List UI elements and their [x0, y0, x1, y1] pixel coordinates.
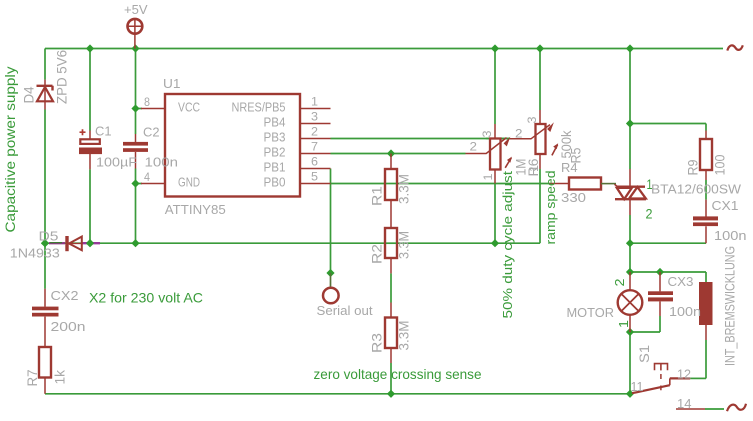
svg-text:ramp speed: ramp speed: [543, 171, 558, 245]
svg-text:C1: C1: [95, 124, 112, 139]
svg-text:3.3M: 3.3M: [397, 174, 412, 204]
svg-text:R7: R7: [25, 370, 40, 387]
svg-text:1N4933: 1N4933: [10, 246, 60, 261]
svg-text:X2 for 230 volt AC: X2 for 230 volt AC: [89, 290, 203, 306]
svg-text:U1: U1: [163, 76, 181, 91]
svg-text:ATTINY85: ATTINY85: [165, 202, 226, 217]
svg-text:MOTOR: MOTOR: [567, 305, 615, 320]
svg-text:100n: 100n: [145, 155, 179, 170]
svg-text:2: 2: [646, 206, 653, 222]
svg-text:2: 2: [515, 127, 523, 141]
svg-text:C2: C2: [143, 125, 160, 140]
svg-text:Capacitive power supply: Capacitive power supply: [3, 66, 18, 232]
svg-text:PB3: PB3: [264, 130, 286, 145]
svg-text:R2: R2: [370, 244, 385, 264]
svg-text:PB0: PB0: [264, 175, 286, 190]
svg-text:14: 14: [677, 396, 692, 411]
svg-text:3.3M: 3.3M: [397, 231, 412, 259]
svg-text:CX1: CX1: [712, 198, 739, 213]
svg-text:200n: 200n: [51, 319, 86, 334]
svg-text:330: 330: [561, 190, 586, 205]
svg-text:Serial out: Serial out: [317, 303, 373, 318]
svg-text:7: 7: [311, 140, 318, 154]
svg-text:1: 1: [527, 165, 541, 172]
svg-text:NRES/PB5: NRES/PB5: [232, 100, 286, 115]
svg-text:1: 1: [616, 320, 631, 328]
svg-text:R3: R3: [370, 333, 385, 353]
svg-text:100: 100: [713, 155, 728, 176]
svg-text:5: 5: [311, 170, 318, 184]
svg-text:R1: R1: [370, 186, 385, 206]
svg-text:50% duty cycle adjust: 50% duty cycle adjust: [500, 171, 515, 319]
svg-text:2: 2: [612, 279, 627, 287]
svg-text:2: 2: [311, 125, 318, 139]
svg-text:1: 1: [311, 95, 318, 109]
svg-text:3: 3: [311, 110, 318, 124]
svg-text:CX2: CX2: [51, 288, 79, 303]
svg-text:PB2: PB2: [264, 145, 286, 160]
svg-text:3: 3: [480, 130, 494, 137]
svg-text:100n: 100n: [714, 228, 747, 243]
svg-text:D4: D4: [22, 86, 37, 103]
svg-text:+5V: +5V: [124, 2, 148, 17]
svg-text:1: 1: [647, 176, 653, 192]
svg-text:100n: 100n: [669, 304, 701, 319]
svg-text:R9: R9: [686, 160, 701, 176]
svg-text:11: 11: [631, 379, 644, 394]
svg-text:PB1: PB1: [264, 160, 286, 175]
svg-text:CX3: CX3: [668, 274, 694, 289]
svg-text:R5: R5: [569, 148, 584, 164]
svg-text:6: 6: [311, 155, 318, 169]
svg-text:VCC: VCC: [178, 100, 200, 115]
svg-text:100µF: 100µF: [96, 155, 137, 170]
svg-text:S1: S1: [637, 345, 652, 363]
svg-text:PB4: PB4: [264, 115, 286, 130]
svg-text:zero voltage crossing sense: zero voltage crossing sense: [314, 366, 482, 382]
svg-text:BTA12/600SW: BTA12/600SW: [651, 182, 742, 197]
svg-text:D5: D5: [39, 229, 59, 244]
svg-text:3: 3: [525, 116, 539, 123]
svg-text:2: 2: [470, 140, 478, 154]
svg-text:8: 8: [144, 95, 150, 109]
svg-text:12: 12: [677, 366, 691, 381]
svg-text:GND: GND: [178, 175, 200, 190]
svg-text:INT_BREMSWICKLUNG: INT_BREMSWICKLUNG: [723, 246, 738, 366]
svg-text:3.3M: 3.3M: [397, 321, 412, 351]
svg-text:4: 4: [144, 170, 150, 184]
svg-text:ZPD 5V6: ZPD 5V6: [55, 50, 70, 104]
svg-text:1: 1: [481, 173, 495, 180]
svg-text:1k: 1k: [53, 370, 68, 385]
